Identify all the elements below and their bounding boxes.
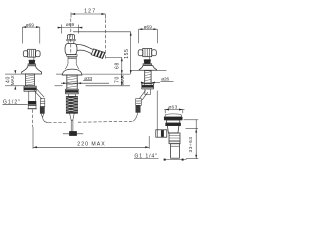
dimension o69 spout	[58, 25, 83, 34]
neck	[68, 41, 74, 44]
mounting nut left valve	[24, 86, 36, 91]
handle right lobe	[36, 51, 41, 57]
spout tip centerline (dashed)	[104, 20, 106, 61]
deck line stub left valve	[16, 85, 26, 87]
dimension 127	[71, 13, 105, 18]
bonnet	[144, 60, 151, 64]
svg-text:33÷63: 33÷63	[188, 137, 193, 153]
deck top line right of spout	[83, 73, 131, 75]
right valve nut	[142, 84, 154, 89]
bonnet	[29, 60, 35, 64]
handle hub	[143, 48, 152, 56]
drain coupling	[169, 133, 180, 144]
extension line nozzle tip level	[106, 56, 122, 58]
spout tube	[68, 94, 75, 97]
extension line spout top to 155 dim	[73, 31, 131, 33]
right valve hose	[133, 90, 148, 121]
spout mounting nut	[66, 89, 79, 94]
fitting dark band	[28, 101, 36, 104]
stem	[145, 57, 150, 60]
below-ball collar	[67, 55, 77, 57]
bell	[139, 66, 156, 71]
spout cap knob	[67, 35, 74, 40]
svg-text:220 MAX: 220 MAX	[77, 142, 105, 148]
dimension o69 left valve	[22, 26, 40, 43]
ridge rings	[28, 64, 36, 66]
spout thin tube	[71, 120, 73, 131]
spout column	[68, 56, 76, 64]
valve centerline dashed	[32, 110, 34, 128]
bottom nut	[28, 106, 36, 109]
svg-text:68: 68	[115, 63, 121, 70]
o33 dim line	[61, 82, 109, 84]
drain side port	[156, 130, 167, 137]
spout braided hose	[66, 96, 77, 113]
spout shank	[67, 75, 77, 89]
spout trumpet flare	[65, 64, 79, 69]
bell escutcheon	[22, 66, 42, 74]
dashed hose line	[48, 122, 66, 124]
40 MAX dim ext top	[5, 73, 21, 75]
dimension o69 right valve	[139, 28, 158, 43]
svg-text:ø69: ø69	[144, 24, 153, 29]
shank right valve	[145, 71, 151, 84]
ball body	[65, 44, 77, 55]
pop-up rod	[156, 91, 158, 130]
drain plug cap	[166, 113, 181, 116]
svg-text:127: 127	[84, 9, 95, 15]
deck bottom line right of spout	[86, 85, 131, 87]
o63 dim	[164, 109, 185, 114]
handle hub	[28, 49, 36, 57]
spout nozzle curved	[77, 44, 94, 49]
svg-text:MAX: MAX	[120, 75, 125, 85]
deck stub left of spout (top)	[56, 73, 62, 75]
tail tube	[29, 91, 36, 101]
deck stub left of spout (bottom)	[55, 85, 63, 87]
40 MAX dim ext bottom	[5, 85, 18, 87]
33/63 vertical dim	[184, 120, 199, 159]
o26 dim	[141, 79, 160, 86]
o33 ticks and arrows	[63, 80, 81, 87]
stem	[30, 57, 34, 60]
aerator tip	[91, 49, 105, 59]
svg-text:ø26: ø26	[161, 76, 169, 81]
drain body	[167, 126, 179, 133]
vertical dimension line 70 MAX	[121, 74, 123, 86]
right valve tail	[145, 89, 150, 95]
handle right lobe	[152, 50, 157, 56]
spout hose end fitting	[69, 131, 76, 135]
220 MAX dim	[33, 127, 149, 149]
svg-text:ø63: ø63	[168, 104, 177, 109]
handle left lobe	[23, 51, 28, 57]
spout tip extension tick	[104, 14, 106, 19]
drain step	[167, 120, 180, 123]
drain bottom line	[164, 159, 187, 161]
vertical dimension line 68	[121, 57, 123, 74]
deck line right valve	[131, 70, 140, 72]
svg-text:ø69: ø69	[26, 22, 35, 27]
40 MAX arrows	[14, 70, 16, 74]
drain dark band 2	[166, 123, 181, 126]
threaded shank left valve	[26, 74, 35, 86]
svg-text:MAX: MAX	[10, 75, 15, 85]
collar	[67, 39, 75, 40]
ridge rings	[143, 64, 152, 66]
spout dome base	[62, 69, 82, 75]
drain tailpipe	[171, 144, 180, 159]
vertical dimension line 155	[130, 32, 132, 74]
hose left valve	[34, 88, 48, 122]
drain flange dark rim	[164, 117, 182, 120]
spout centerline dashed	[70, 19, 72, 56]
handle left lobe	[138, 50, 143, 56]
svg-text:155: 155	[124, 49, 130, 59]
svg-text:ø69: ø69	[66, 22, 75, 27]
spout hose taper	[70, 113, 75, 120]
